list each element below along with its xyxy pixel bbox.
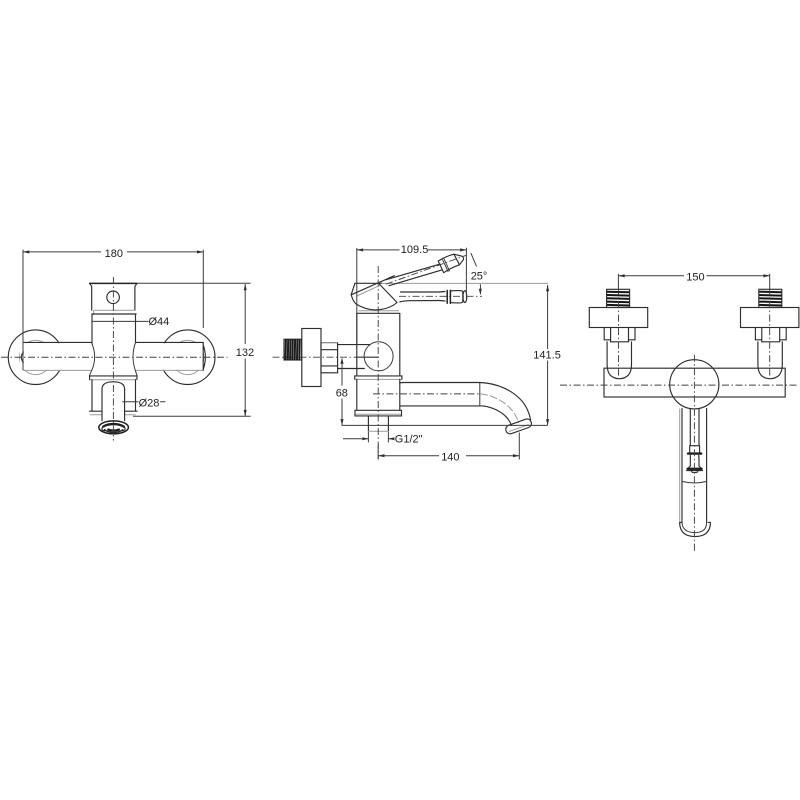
cone adapter [338, 345, 371, 369]
left inlet centerline [618, 288, 620, 379]
cap dome [351, 283, 355, 294]
dim 132 [133, 283, 251, 416]
right threaded nipple [759, 289, 782, 307]
horizontal handle waist [440, 292, 446, 302]
horizontal handle end ellipse [463, 291, 467, 303]
horizontal handle grip [450, 291, 463, 303]
lever axis [386, 255, 467, 284]
spout axis dash [373, 393, 480, 395]
svg-text:68: 68 [336, 387, 348, 399]
dim 68 [341, 361, 343, 425]
dim 109.5 [357, 248, 467, 344]
pipe white masks [20, 343, 93, 370]
svg-text:180: 180 [105, 248, 123, 260]
svg-text:25°: 25° [471, 270, 488, 282]
ball joint circle [364, 342, 393, 371]
dim G1/2 [368, 432, 388, 443]
centerline horizontal left view [1, 356, 228, 358]
svg-text:140: 140 [441, 451, 459, 463]
wall flange inner ellipse right [172, 340, 204, 374]
lever knob [438, 254, 459, 273]
cap flat top + 141.5 ext [355, 282, 382, 284]
right flange plate [741, 308, 799, 328]
shoulder ring mid [355, 375, 402, 377]
left flange plate [589, 308, 647, 328]
threaded nipple [284, 339, 302, 360]
bottom ring mid [355, 410, 402, 416]
svg-text:G1/2": G1/2" [395, 434, 423, 446]
body sides [92, 314, 136, 344]
right pipe [136, 341, 204, 343]
spout bend inner [483, 406, 511, 426]
spout bend outer [480, 383, 531, 420]
svg-text:Ø28: Ø28 [139, 397, 160, 409]
central circle [670, 360, 719, 409]
hanging knob [690, 446, 700, 453]
right hex adapter [755, 328, 786, 342]
aerator [99, 421, 129, 434]
left pipe end arc [21, 352, 23, 363]
left pipe [23, 341, 92, 343]
centerline vertical left view [112, 277, 114, 441]
knob groove [443, 259, 450, 271]
dim 140 [378, 433, 519, 460]
body mid [357, 314, 400, 376]
cap groove [94, 310, 135, 314]
shoulder ring [90, 375, 138, 377]
spout dome front [102, 382, 125, 421]
bottom cap [90, 410, 138, 412]
horizontal handle axis [399, 295, 482, 297]
diameter 28 leader [123, 401, 165, 403]
wall flange circle left [8, 330, 63, 385]
diameter 44 leader [92, 320, 148, 322]
ball bulge left [89, 344, 94, 376]
right inlet taper [758, 342, 782, 379]
tube bottom rim [680, 522, 711, 536]
lever rod [386, 264, 440, 280]
right pipe end [203, 342, 205, 370]
ball bulge right [133, 343, 137, 376]
svg-text:Ø44: Ø44 [149, 316, 170, 328]
bar centerline [560, 384, 799, 386]
svg-text:132: 132 [236, 347, 254, 359]
G1/2 stub [368, 416, 388, 431]
body bar [604, 368, 785, 397]
spout straight tube [400, 382, 480, 384]
body top cap [90, 282, 137, 284]
hanging lever rod [690, 409, 699, 446]
dim 180 [23, 250, 203, 370]
outlet rim [505, 418, 533, 435]
wall flange plate [302, 329, 321, 387]
horizontal handle rod [401, 291, 440, 293]
inlet centerline [273, 356, 357, 358]
lower body [92, 380, 136, 412]
wall flange circle right [160, 330, 215, 385]
vertical centerline mid [377, 266, 379, 459]
svg-text:109.5: 109.5 [401, 244, 429, 256]
spout tube rear [679, 409, 681, 523]
svg-text:141.5: 141.5 [533, 350, 561, 362]
svg-text:150: 150 [686, 272, 704, 284]
spout center curve [481, 394, 519, 423]
dim 150 [618, 274, 769, 289]
screw circle [107, 291, 120, 304]
vertical centerline central [693, 355, 695, 552]
tube chord line [682, 481, 707, 483]
dim 141.5 [547, 285, 549, 425]
left threaded nipple [607, 289, 630, 307]
left inlet taper [607, 342, 631, 379]
knob tip [454, 254, 463, 265]
hex nut side [321, 343, 338, 373]
wall flange inner ellipse left [20, 340, 52, 374]
141.5 / 68 bottom extension [342, 424, 548, 426]
lower body mid [357, 379, 400, 410]
right inlet centerline [769, 288, 771, 379]
25 deg annotation [471, 253, 477, 266]
left hex adapter [604, 328, 635, 342]
